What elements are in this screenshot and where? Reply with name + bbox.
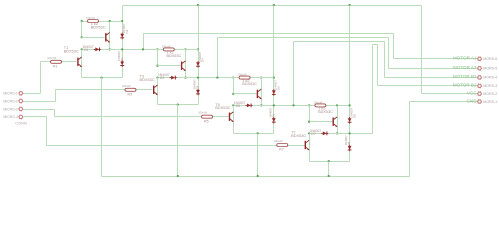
svg-text:GND: GND [467,98,477,103]
svg-text:100mW: 100mW [47,56,56,60]
svg-text:D6: D6 [271,114,275,118]
svg-text:MICRO-1: MICRO-1 [3,92,18,96]
svg-text:MORS-3: MORS-3 [483,84,497,88]
svg-text:BDX53C: BDX53C [167,54,182,58]
svg-text:D8: D8 [352,114,356,118]
svg-text:D8: D8 [347,141,351,145]
svg-text:D4: D4 [201,58,205,62]
svg-text:MICRO-4: MICRO-4 [3,115,18,119]
svg-text:MORS-4: MORS-4 [483,76,497,80]
svg-text:100mW: 100mW [198,111,207,115]
svg-text:100mW: 100mW [162,44,171,48]
svg-text:100mW: 100mW [122,84,131,88]
svg-text:MORS-5: MORS-5 [483,67,497,71]
svg-text:BDX53C: BDX53C [91,25,106,29]
svg-text:BDX53C: BDX53C [140,77,155,82]
svg-text:BDX53C: BDX53C [64,49,79,54]
svg-text:R5: R5 [204,119,209,123]
svg-text:D2: D2 [120,57,124,61]
svg-text:MORS-1: MORS-1 [483,100,497,104]
svg-text:MOTOR A1: MOTOR A1 [453,56,477,61]
svg-text:D6: D6 [277,86,281,90]
svg-text:100mW: 100mW [313,100,322,104]
svg-text:R1: R1 [53,64,58,68]
svg-text:BDX53C: BDX53C [318,110,333,114]
svg-text:D4: D4 [196,85,200,89]
svg-text:MICRO-3: MICRO-3 [3,107,18,111]
svg-text:MORS-2: MORS-2 [483,92,497,96]
svg-text:BDX53C: BDX53C [215,105,230,110]
svg-text:D3: D3 [160,76,165,80]
svg-text:100mW: 100mW [274,139,283,143]
svg-text:MICRO-2: MICRO-2 [3,99,18,103]
svg-text:VCC: VCC [467,91,477,96]
svg-text:MOTOR B2: MOTOR B2 [453,83,477,88]
svg-text:CONN: CONN [15,120,27,125]
svg-text:R7: R7 [279,148,284,152]
svg-text:D2: D2 [125,29,129,33]
svg-text:BDX53C: BDX53C [242,82,257,86]
svg-text:MOTOR B1: MOTOR B1 [453,74,477,79]
svg-text:D5: D5 [236,104,241,108]
svg-text:MORS-6: MORS-6 [483,57,497,61]
svg-text:D1: D1 [84,48,89,52]
svg-text:100mW: 100mW [86,16,95,20]
svg-text:MOTOR A2: MOTOR A2 [453,65,477,70]
svg-text:100mW: 100mW [238,73,247,77]
svg-text:BDX53C: BDX53C [291,133,306,138]
svg-text:D7: D7 [311,132,316,136]
svg-text:R3: R3 [128,92,133,96]
